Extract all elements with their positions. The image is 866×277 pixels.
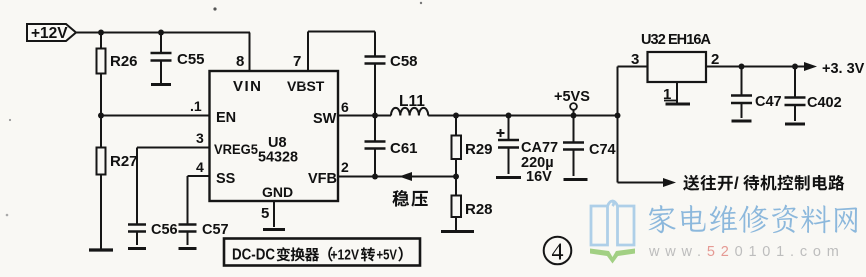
svg-text:www.520101.com: www.520101.com bbox=[648, 244, 845, 260]
wire +5V rail bbox=[428, 115, 617, 117]
svg-text:+3. 3V: +3. 3V bbox=[822, 61, 865, 77]
capacitor C61 bbox=[374, 116, 376, 142]
ground under R28 bbox=[441, 230, 474, 233]
svg-text:2: 2 bbox=[341, 159, 349, 175]
wire VREG5 net bbox=[137, 147, 210, 149]
ground under pin 5 bbox=[263, 228, 285, 231]
wire SS net bbox=[188, 175, 210, 177]
capacitor C57 bbox=[179, 223, 197, 226]
svg-text:VREG5: VREG5 bbox=[214, 142, 258, 157]
svg-text:6: 6 bbox=[341, 99, 349, 115]
svg-text:CA77: CA77 bbox=[521, 140, 558, 156]
svg-text:54328: 54328 bbox=[258, 150, 298, 166]
svg-text:3: 3 bbox=[631, 51, 639, 68]
svg-text:4: 4 bbox=[196, 159, 204, 175]
capacitor C74 bbox=[573, 116, 575, 143]
svg-text:R29: R29 bbox=[465, 141, 493, 158]
svg-text:C74: C74 bbox=[589, 142, 616, 158]
arrow +3.3V output bbox=[804, 62, 817, 71]
svg-text:16V: 16V bbox=[526, 169, 552, 185]
inductor L11 bbox=[391, 108, 428, 116]
svg-text:C57: C57 bbox=[202, 222, 229, 238]
op-amp U8 54328 DC-DC converter IC bbox=[210, 71, 339, 201]
ground under CA77 bbox=[496, 176, 521, 179]
node SW-+5VS junction bbox=[571, 113, 577, 119]
wire GND pin5 bbox=[273, 201, 275, 227]
capacitor C56 bbox=[128, 223, 146, 226]
capacitor C402 bbox=[794, 67, 796, 98]
label wenya (regulation) bbox=[392, 190, 409, 207]
regulator U32 EH16A bbox=[648, 52, 707, 82]
svg-text:C55: C55 bbox=[177, 51, 205, 68]
svg-text:VBST: VBST bbox=[287, 78, 325, 94]
node C61-VFB junction bbox=[372, 174, 378, 180]
arrow VFB feedback bbox=[399, 172, 412, 181]
wire VFB net bbox=[338, 176, 456, 178]
ground under C57 bbox=[179, 247, 197, 250]
capacitor C47 bbox=[741, 67, 743, 96]
node rail-C55 bbox=[158, 30, 164, 36]
svg-text:.1: .1 bbox=[190, 98, 202, 114]
svg-text:L11: L11 bbox=[399, 93, 425, 110]
ground under C402 bbox=[785, 123, 805, 126]
ground under R27 bbox=[89, 248, 113, 251]
wire to standby control bbox=[618, 182, 664, 184]
svg-text:5: 5 bbox=[261, 205, 269, 222]
scan specks (decorative) bbox=[213, 7, 216, 10]
watermark site name bbox=[649, 205, 676, 233]
svg-text:3: 3 bbox=[196, 130, 204, 146]
svg-text:VIN: VIN bbox=[233, 78, 263, 95]
svg-text:C61: C61 bbox=[390, 140, 418, 157]
resistor R27 bbox=[100, 116, 102, 148]
svg-text:R26: R26 bbox=[110, 53, 138, 70]
node EN junction bbox=[98, 113, 104, 119]
svg-text:R28: R28 bbox=[465, 201, 493, 218]
svg-text:2: 2 bbox=[711, 51, 719, 68]
wire U32 pin2 output bbox=[706, 66, 809, 68]
svg-text:C58: C58 bbox=[390, 53, 418, 70]
resistor R26 bbox=[100, 33, 102, 49]
node out-C47 bbox=[739, 64, 745, 70]
wire SW net bbox=[338, 115, 391, 117]
capacitor C58 bbox=[374, 32, 376, 57]
node rail-R26 bbox=[98, 30, 104, 36]
svg-text:7: 7 bbox=[293, 53, 301, 70]
node VFB-R29-R28 junction bbox=[453, 174, 459, 180]
svg-text:+5V: +5V bbox=[377, 248, 398, 264]
node SW-R29 junction bbox=[453, 113, 459, 119]
svg-text:+12V: +12V bbox=[31, 25, 68, 42]
node +5V rail to U32 branch bbox=[615, 113, 621, 119]
resistor R28 bbox=[455, 177, 457, 196]
svg-text:R27: R27 bbox=[110, 153, 138, 170]
ground under C56 bbox=[128, 247, 146, 250]
wire EN net bbox=[101, 115, 210, 117]
terminal +5VS bbox=[570, 103, 577, 110]
watermark book icon bbox=[591, 201, 634, 245]
wire VBST net bbox=[307, 32, 309, 72]
svg-text:+5VS: +5VS bbox=[554, 89, 590, 105]
svg-text:+12V: +12V bbox=[331, 248, 360, 264]
wire branch column bbox=[617, 67, 619, 183]
svg-text:4: 4 bbox=[552, 240, 564, 266]
svg-text:/: / bbox=[734, 174, 739, 193]
ground under C74 bbox=[564, 178, 588, 181]
svg-text:C56: C56 bbox=[151, 222, 178, 238]
node SW-C58 junction bbox=[372, 113, 378, 119]
svg-text:EN: EN bbox=[216, 110, 236, 126]
wire +12V rail bbox=[76, 32, 250, 34]
svg-text:VFB: VFB bbox=[308, 171, 337, 187]
+12V supply flag bbox=[27, 24, 76, 41]
capacitor CA77 electrolytic bbox=[508, 116, 510, 141]
svg-text:C402: C402 bbox=[807, 95, 842, 111]
node SW-CA77 junction bbox=[506, 113, 512, 119]
resistor R29 bbox=[455, 116, 457, 136]
svg-text:SS: SS bbox=[216, 171, 236, 187]
ground under U32 pin1 bbox=[666, 103, 691, 106]
caption box DC-DC converter bbox=[224, 239, 420, 266]
page marker circled 4 bbox=[544, 237, 572, 265]
svg-text:GND: GND bbox=[262, 184, 293, 200]
svg-text:SW: SW bbox=[313, 111, 337, 127]
capacitor C55 bbox=[160, 33, 162, 54]
svg-text:C47: C47 bbox=[755, 94, 782, 110]
svg-text:8: 8 bbox=[236, 53, 244, 70]
arrow to standby control bbox=[663, 178, 676, 187]
node out-C402 bbox=[792, 64, 798, 70]
wire U32 pin3 bbox=[618, 66, 648, 68]
svg-text:U32 EH16A: U32 EH16A bbox=[641, 32, 712, 48]
svg-text:DC-DC: DC-DC bbox=[232, 247, 275, 264]
ground under C47 bbox=[732, 120, 752, 123]
label songwang kai/daiji kongzhi dianlu bbox=[683, 175, 699, 191]
